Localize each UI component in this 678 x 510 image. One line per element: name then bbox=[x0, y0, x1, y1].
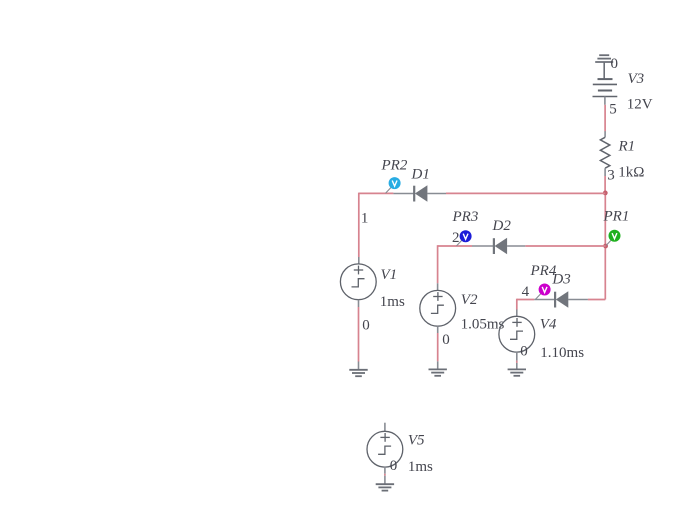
ground under V5 bbox=[376, 484, 394, 490]
ground under V1 bbox=[349, 370, 367, 376]
wire D3 anode to main bus bbox=[588, 299, 605, 301]
svg-text:PR2: PR2 bbox=[381, 158, 408, 174]
wire V2 to ground bbox=[437, 326, 439, 369]
ground under V4 bbox=[508, 369, 526, 375]
svg-text:1: 1 bbox=[361, 210, 369, 226]
probe PR1 bbox=[609, 230, 621, 242]
battery V3 bbox=[593, 79, 618, 105]
svg-text:V1: V1 bbox=[381, 267, 398, 283]
wire D2 anode to junction bbox=[525, 245, 605, 247]
wire main bus vertical (node 3 down to D3) bbox=[604, 193, 606, 300]
resistor R1 bbox=[600, 131, 609, 176]
probe PR2 bbox=[389, 177, 401, 189]
svg-text:V5: V5 bbox=[408, 432, 425, 448]
svg-text:V2: V2 bbox=[461, 292, 478, 308]
svg-text:V3: V3 bbox=[628, 71, 645, 87]
diode D1 bbox=[393, 185, 446, 201]
svg-text:4: 4 bbox=[522, 284, 530, 300]
wire node 1 vertical (corner down to V1) bbox=[358, 193, 360, 257]
svg-text:1ms: 1ms bbox=[408, 459, 433, 475]
ground symbol net 0 (above V3, flipped up) bbox=[595, 55, 613, 79]
probe PR2 leader bbox=[386, 187, 392, 193]
svg-text:D2: D2 bbox=[492, 218, 512, 234]
svg-text:1kΩ: 1kΩ bbox=[618, 164, 644, 180]
probe PR4 leader bbox=[535, 294, 541, 300]
probe PR1 leader bbox=[606, 240, 611, 245]
svg-text:PR3: PR3 bbox=[452, 209, 479, 225]
probe PR3 bbox=[460, 230, 472, 242]
svg-text:5: 5 bbox=[609, 102, 617, 118]
wire D2 row horizontal (node 2 corner to D2) bbox=[438, 245, 472, 247]
diode D2 bbox=[472, 238, 525, 254]
svg-text:2: 2 bbox=[452, 230, 460, 246]
wire R1 to node 3 junction bbox=[604, 176, 606, 193]
wire node 4 vertical (corner down to V4) bbox=[516, 299, 518, 310]
svg-text:0: 0 bbox=[362, 318, 370, 334]
wire D3 row horizontal (node 4 corner to D3) bbox=[517, 299, 535, 301]
svg-text:V4: V4 bbox=[540, 317, 557, 333]
wire V3 to R1 bbox=[604, 105, 606, 132]
svg-text:1.10ms: 1.10ms bbox=[540, 345, 584, 361]
svg-text:3: 3 bbox=[607, 168, 615, 184]
svg-text:1.05ms: 1.05ms bbox=[461, 317, 505, 333]
svg-text:0: 0 bbox=[520, 344, 528, 360]
wire V5 to ground bbox=[384, 467, 386, 484]
probe PR4 bbox=[539, 284, 551, 296]
svg-text:D1: D1 bbox=[411, 167, 430, 183]
svg-text:PR4: PR4 bbox=[530, 263, 557, 279]
wire D1 anode to junction bbox=[446, 192, 605, 194]
source V2 bbox=[420, 290, 456, 326]
svg-text:12V: 12V bbox=[627, 97, 653, 113]
wire D1 row horizontal (node 1 corner to D1) bbox=[359, 192, 394, 194]
wire V4 to ground bbox=[516, 352, 518, 369]
source V5 bbox=[367, 423, 403, 467]
wire V1 to ground bbox=[358, 300, 360, 370]
svg-text:0: 0 bbox=[442, 332, 450, 348]
svg-text:PR1: PR1 bbox=[603, 209, 630, 225]
source V4 bbox=[499, 316, 535, 352]
ground under V2 bbox=[429, 369, 447, 375]
diode D3 bbox=[534, 291, 588, 307]
junction at D2 branch bbox=[603, 244, 608, 249]
junction node 3 bbox=[603, 191, 608, 196]
wire node 2 vertical (corner down to V2) bbox=[437, 245, 439, 283]
svg-text:R1: R1 bbox=[618, 139, 636, 155]
probe PR3 leader bbox=[457, 240, 463, 246]
source V1 bbox=[340, 264, 376, 300]
svg-text:0: 0 bbox=[390, 458, 398, 474]
svg-text:0: 0 bbox=[611, 56, 619, 72]
svg-text:1ms: 1ms bbox=[380, 294, 405, 310]
